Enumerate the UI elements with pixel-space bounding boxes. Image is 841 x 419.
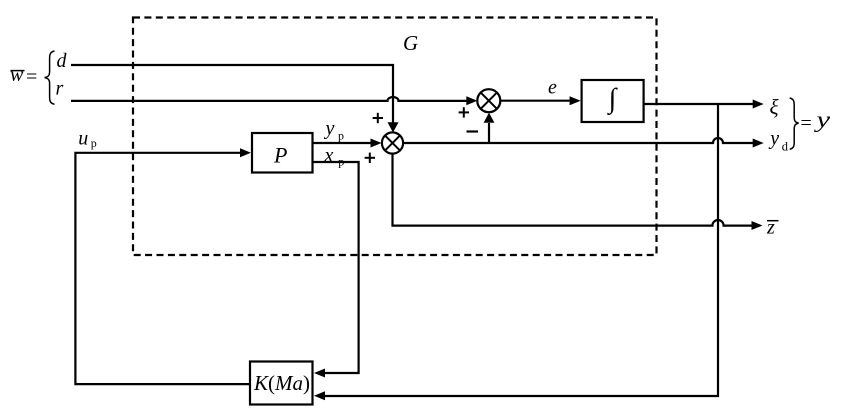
- svg-text:=: =: [801, 113, 812, 135]
- plus sign for d input of S1: [373, 117, 383, 119]
- svg-text:w: w: [10, 64, 24, 86]
- svg-text:z: z: [766, 217, 775, 239]
- plus sign for r input of S2: [459, 111, 469, 113]
- wire S1 bottom down then right to zbar with hop: [393, 154, 753, 226]
- svg-text:y: y: [814, 107, 831, 132]
- svg-text:e: e: [548, 76, 557, 98]
- svg-text:P: P: [273, 143, 287, 168]
- summing junction S2 (upper): [477, 89, 500, 112]
- minus sign for feedback input of S2: [467, 130, 479, 132]
- block integrator U1: [582, 80, 644, 122]
- right brace: [790, 98, 799, 149]
- wire tap up into S2 bottom (minus): [488, 123, 490, 143]
- svg-text:=: =: [26, 66, 37, 88]
- block K(Ma): [250, 362, 313, 405]
- svg-text:p: p: [91, 136, 97, 150]
- wire r with hop, into S2 left: [71, 97, 468, 101]
- svg-text:ξ: ξ: [770, 95, 779, 119]
- svg-text:y: y: [324, 118, 335, 140]
- wire S1 output right to yd with hop: [403, 138, 753, 143]
- svg-text:u: u: [78, 127, 88, 149]
- svg-text:d: d: [782, 139, 789, 153]
- svg-text:y: y: [768, 128, 779, 150]
- svg-text:K(Ma): K(Ma): [253, 371, 310, 395]
- svg-text:p: p: [338, 129, 344, 143]
- wire xp down into K right upper input: [313, 162, 359, 373]
- dashed boundary box G: [133, 18, 657, 256]
- wire d (horizontal then drop into S1): [71, 65, 393, 124]
- block P: [252, 133, 313, 173]
- summing junction S1 (lower): [382, 132, 403, 153]
- wire S2 output to integrator: [500, 100, 570, 102]
- plus sign for yp input of S1: [365, 157, 375, 159]
- wire feedback right vertical down and into K right lower input: [324, 104, 718, 396]
- svg-text:r: r: [56, 78, 64, 100]
- svg-text:G: G: [403, 31, 418, 55]
- wire up (feedback from K through left side into P): [75, 153, 250, 384]
- wire integrator output to xi: [644, 103, 753, 105]
- left brace: [45, 51, 55, 104]
- wire yp into S1: [313, 142, 371, 144]
- svg-text:d: d: [57, 50, 68, 72]
